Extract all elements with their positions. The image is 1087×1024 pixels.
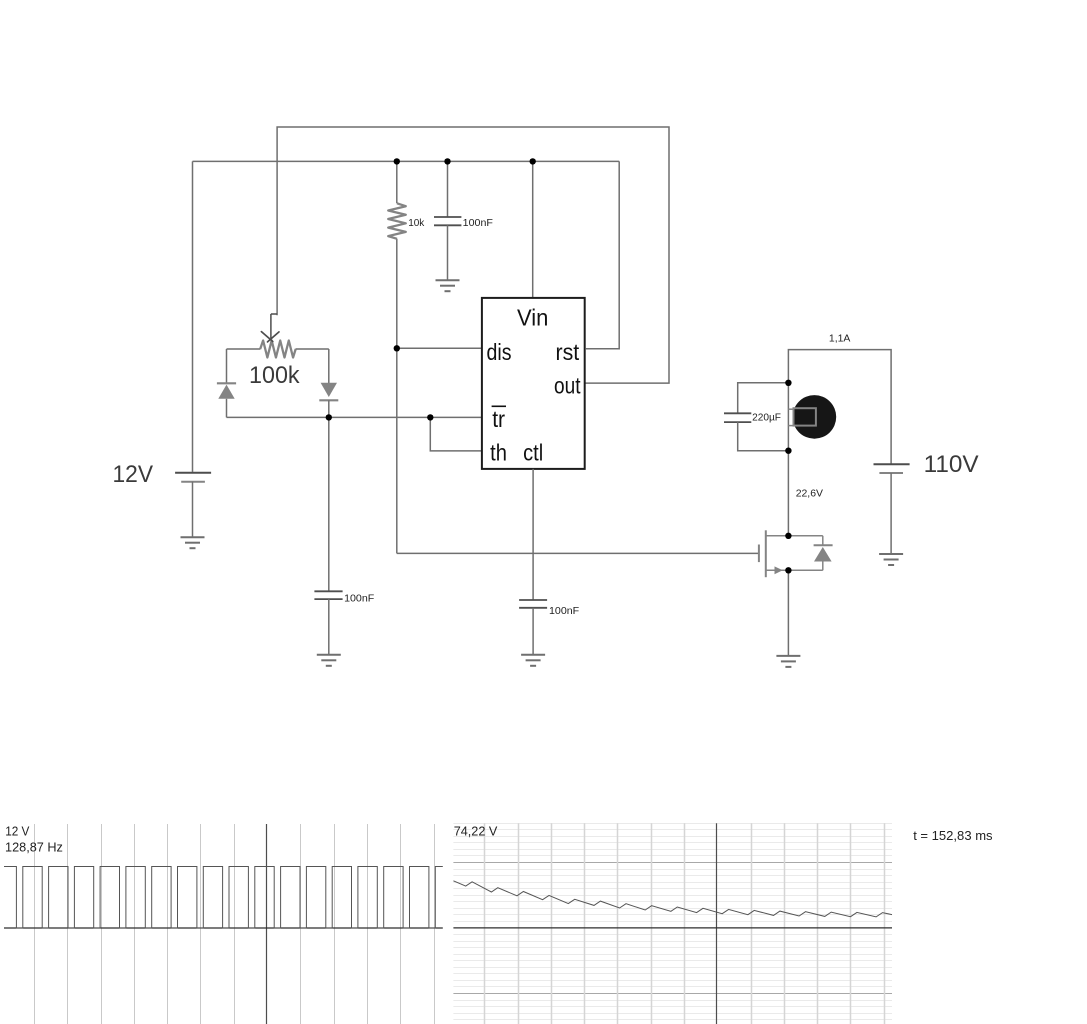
scope 2 motor voltage trace xyxy=(453,881,892,917)
wire tr pin xyxy=(430,416,482,418)
capacitor C2 100nF (timing) xyxy=(328,417,330,591)
wire pot top-right lead xyxy=(296,348,329,350)
svg-text:t = 152,83 ms: t = 152,83 ms xyxy=(913,828,993,843)
potentiometer R2 100k body xyxy=(260,341,296,358)
svg-text:110V: 110V xyxy=(924,451,979,478)
wire rst pin to rail xyxy=(586,161,619,348)
scope 2 zero axis xyxy=(453,927,892,929)
capacitor C4 220uF across motor xyxy=(738,383,789,414)
svg-text:out: out xyxy=(554,372,581,398)
ground for C2 xyxy=(317,654,341,656)
diode D1 (points up) xyxy=(217,382,236,384)
node rail-R1 junction xyxy=(394,158,400,164)
node rail-Vin junction xyxy=(530,158,536,164)
svg-text:tr: tr xyxy=(492,406,505,432)
svg-text:10k: 10k xyxy=(408,217,425,229)
resistor R1 10k xyxy=(388,203,406,239)
svg-text:100k: 100k xyxy=(249,362,301,389)
wire dis pin xyxy=(397,347,483,349)
wire motor top to 110V battery xyxy=(788,350,891,465)
svg-text:rst: rst xyxy=(556,339,580,365)
wire motor vertical xyxy=(787,383,789,451)
node motor top junction xyxy=(785,380,791,386)
wire dis node vertical xyxy=(396,239,398,554)
wire ctl pin down xyxy=(532,469,534,600)
wire Vcc rail from 12V battery xyxy=(193,160,620,162)
svg-text:100nF: 100nF xyxy=(549,605,579,617)
op-amp U1 555 timer box xyxy=(482,298,585,469)
wire 12V battery top lead xyxy=(192,161,194,472)
svg-text:Vin: Vin xyxy=(517,304,548,330)
wire source to ground xyxy=(787,570,789,655)
pin tr overbar xyxy=(492,405,506,407)
wire pot top-left lead xyxy=(227,348,261,350)
node rail-C1 junction xyxy=(444,158,450,164)
svg-text:12V: 12V xyxy=(113,461,154,488)
svg-text:dis: dis xyxy=(487,339,512,365)
scope 1 square wave trace (555 out) xyxy=(4,867,443,929)
diode D2 (points down) xyxy=(321,383,337,397)
wire gate (dis node to MOSFET gate) xyxy=(397,552,759,554)
scope 1 zero axis xyxy=(4,927,443,929)
wire motor bottom to drain xyxy=(787,451,789,536)
wire right diode top lead xyxy=(328,349,330,383)
capacitor C1 100nF (reset filter) xyxy=(447,161,449,217)
scope 1 cursor line xyxy=(266,824,268,1024)
svg-text:th: th xyxy=(490,439,507,465)
wire left diode top lead xyxy=(226,349,228,383)
ground for C3 xyxy=(521,654,545,656)
wire tr node bottom xyxy=(227,416,431,418)
node drain junction xyxy=(785,533,791,539)
svg-text:ctl: ctl xyxy=(523,439,543,465)
node tr-C2 junction xyxy=(326,414,332,420)
node tr-th junction xyxy=(427,414,433,420)
scope 1 time gridlines xyxy=(34,824,36,1024)
svg-text:12 V: 12 V xyxy=(5,823,29,838)
transistor Q1 N-MOSFET xyxy=(758,545,760,563)
svg-text:128,87 Hz: 128,87 Hz xyxy=(5,840,63,855)
wire th pin xyxy=(430,417,482,451)
node motor bottom junction xyxy=(785,448,791,454)
capacitor C3 100nF (control) xyxy=(519,599,547,601)
ground for Q1 source xyxy=(776,655,800,657)
battery B1 12V xyxy=(175,472,211,474)
svg-text:1,1A: 1,1A xyxy=(829,333,851,345)
svg-text:74,22 V: 74,22 V xyxy=(454,823,498,838)
node dis junction xyxy=(394,345,400,351)
wire 10k resistor top lead xyxy=(396,161,398,203)
ground for B1 xyxy=(181,536,205,538)
ground for C1 xyxy=(436,279,460,281)
wire out feedback top (out pin to pot wiper) xyxy=(277,127,669,383)
svg-text:100nF: 100nF xyxy=(463,217,493,229)
svg-text:220µF: 220µF xyxy=(752,412,781,424)
scope 2 voltage gridlines xyxy=(453,823,892,825)
motor M1 body xyxy=(793,395,837,439)
scope 2 cursor line xyxy=(716,823,718,1024)
scope 2 time gridlines xyxy=(484,823,486,1024)
node source junction xyxy=(785,567,791,573)
wire Vin pin to rail xyxy=(532,161,534,298)
ground for B2 xyxy=(879,553,903,555)
battery B2 110V xyxy=(874,463,910,465)
svg-text:100nF: 100nF xyxy=(344,593,374,605)
svg-text:22,6V: 22,6V xyxy=(796,487,823,499)
pot wiper arm and arrow xyxy=(271,313,277,315)
